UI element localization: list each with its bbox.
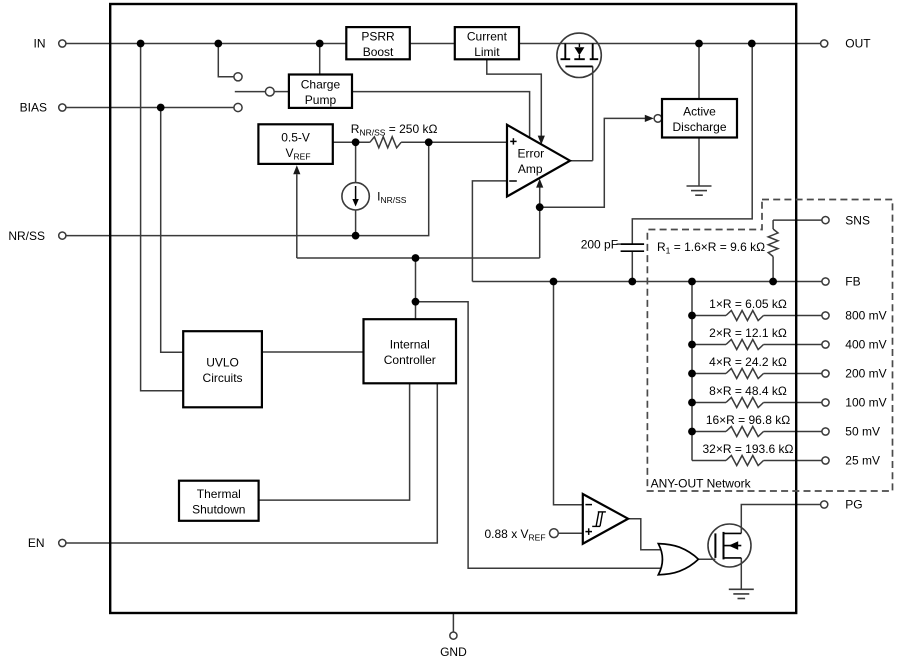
svg-text:200 mV: 200 mV: [845, 367, 886, 381]
svg-text:FB: FB: [845, 275, 860, 289]
svg-text:Internal: Internal: [390, 338, 430, 352]
svg-text:Boost: Boost: [363, 45, 394, 59]
svg-text:Limit: Limit: [474, 45, 500, 59]
svg-text:Amp: Amp: [518, 162, 543, 176]
svg-text:1×R = 6.05 kΩ: 1×R = 6.05 kΩ: [709, 297, 787, 311]
svg-text:Circuits: Circuits: [203, 371, 243, 385]
svg-text:8×R = 48.4 kΩ: 8×R = 48.4 kΩ: [709, 384, 787, 398]
svg-text:400 mV: 400 mV: [845, 338, 886, 352]
svg-text:EN: EN: [28, 536, 45, 550]
svg-text:32×R = 193.6 kΩ: 32×R = 193.6 kΩ: [702, 442, 793, 456]
svg-text:ANY-OUT Network: ANY-OUT Network: [651, 477, 752, 491]
svg-text:GND: GND: [440, 645, 467, 659]
svg-text:OUT: OUT: [845, 37, 871, 51]
svg-text:800 mV: 800 mV: [845, 309, 886, 323]
svg-text:UVLO: UVLO: [206, 356, 239, 370]
svg-text:16×R = 96.8 kΩ: 16×R = 96.8 kΩ: [706, 413, 790, 427]
svg-text:IN: IN: [34, 37, 46, 51]
svg-text:50 mV: 50 mV: [845, 425, 880, 439]
svg-text:25 mV: 25 mV: [845, 454, 880, 468]
svg-text:Active: Active: [683, 105, 716, 119]
svg-text:100 mV: 100 mV: [845, 396, 886, 410]
svg-text:Discharge: Discharge: [672, 120, 726, 134]
svg-text:Pump: Pump: [305, 93, 337, 107]
svg-text:Current: Current: [467, 30, 508, 44]
svg-text:4×R = 24.2 kΩ: 4×R = 24.2 kΩ: [709, 355, 787, 369]
svg-text:Shutdown: Shutdown: [192, 502, 245, 516]
svg-text:Controller: Controller: [384, 353, 436, 367]
svg-text:PG: PG: [845, 498, 862, 512]
svg-text:Thermal: Thermal: [197, 487, 241, 501]
svg-text:200 pF: 200 pF: [581, 237, 618, 251]
svg-text:2×R = 12.1 kΩ: 2×R = 12.1 kΩ: [709, 326, 787, 340]
svg-text:SNS: SNS: [845, 213, 870, 227]
svg-text:PSRR: PSRR: [361, 30, 395, 44]
svg-text:Charge: Charge: [301, 78, 341, 92]
svg-text:R1 = 1.6×R = 9.6 kΩ: R1 = 1.6×R = 9.6 kΩ: [657, 240, 765, 256]
svg-text:BIAS: BIAS: [20, 101, 47, 115]
svg-text:Error: Error: [517, 147, 544, 161]
svg-text:NR/SS: NR/SS: [8, 229, 45, 243]
svg-text:0.5-V: 0.5-V: [281, 131, 310, 145]
